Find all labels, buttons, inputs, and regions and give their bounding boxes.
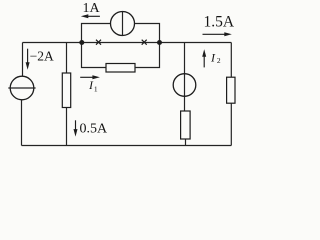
svg-text:1.5A: 1.5A <box>204 14 235 31</box>
svg-text:1: 1 <box>94 85 98 94</box>
svg-text:2: 2 <box>217 56 221 65</box>
svg-text:1A: 1A <box>82 1 100 16</box>
svg-text:I: I <box>210 50 216 64</box>
svg-text:0.5A: 0.5A <box>80 121 109 136</box>
svg-text:−2A: −2A <box>30 48 54 63</box>
